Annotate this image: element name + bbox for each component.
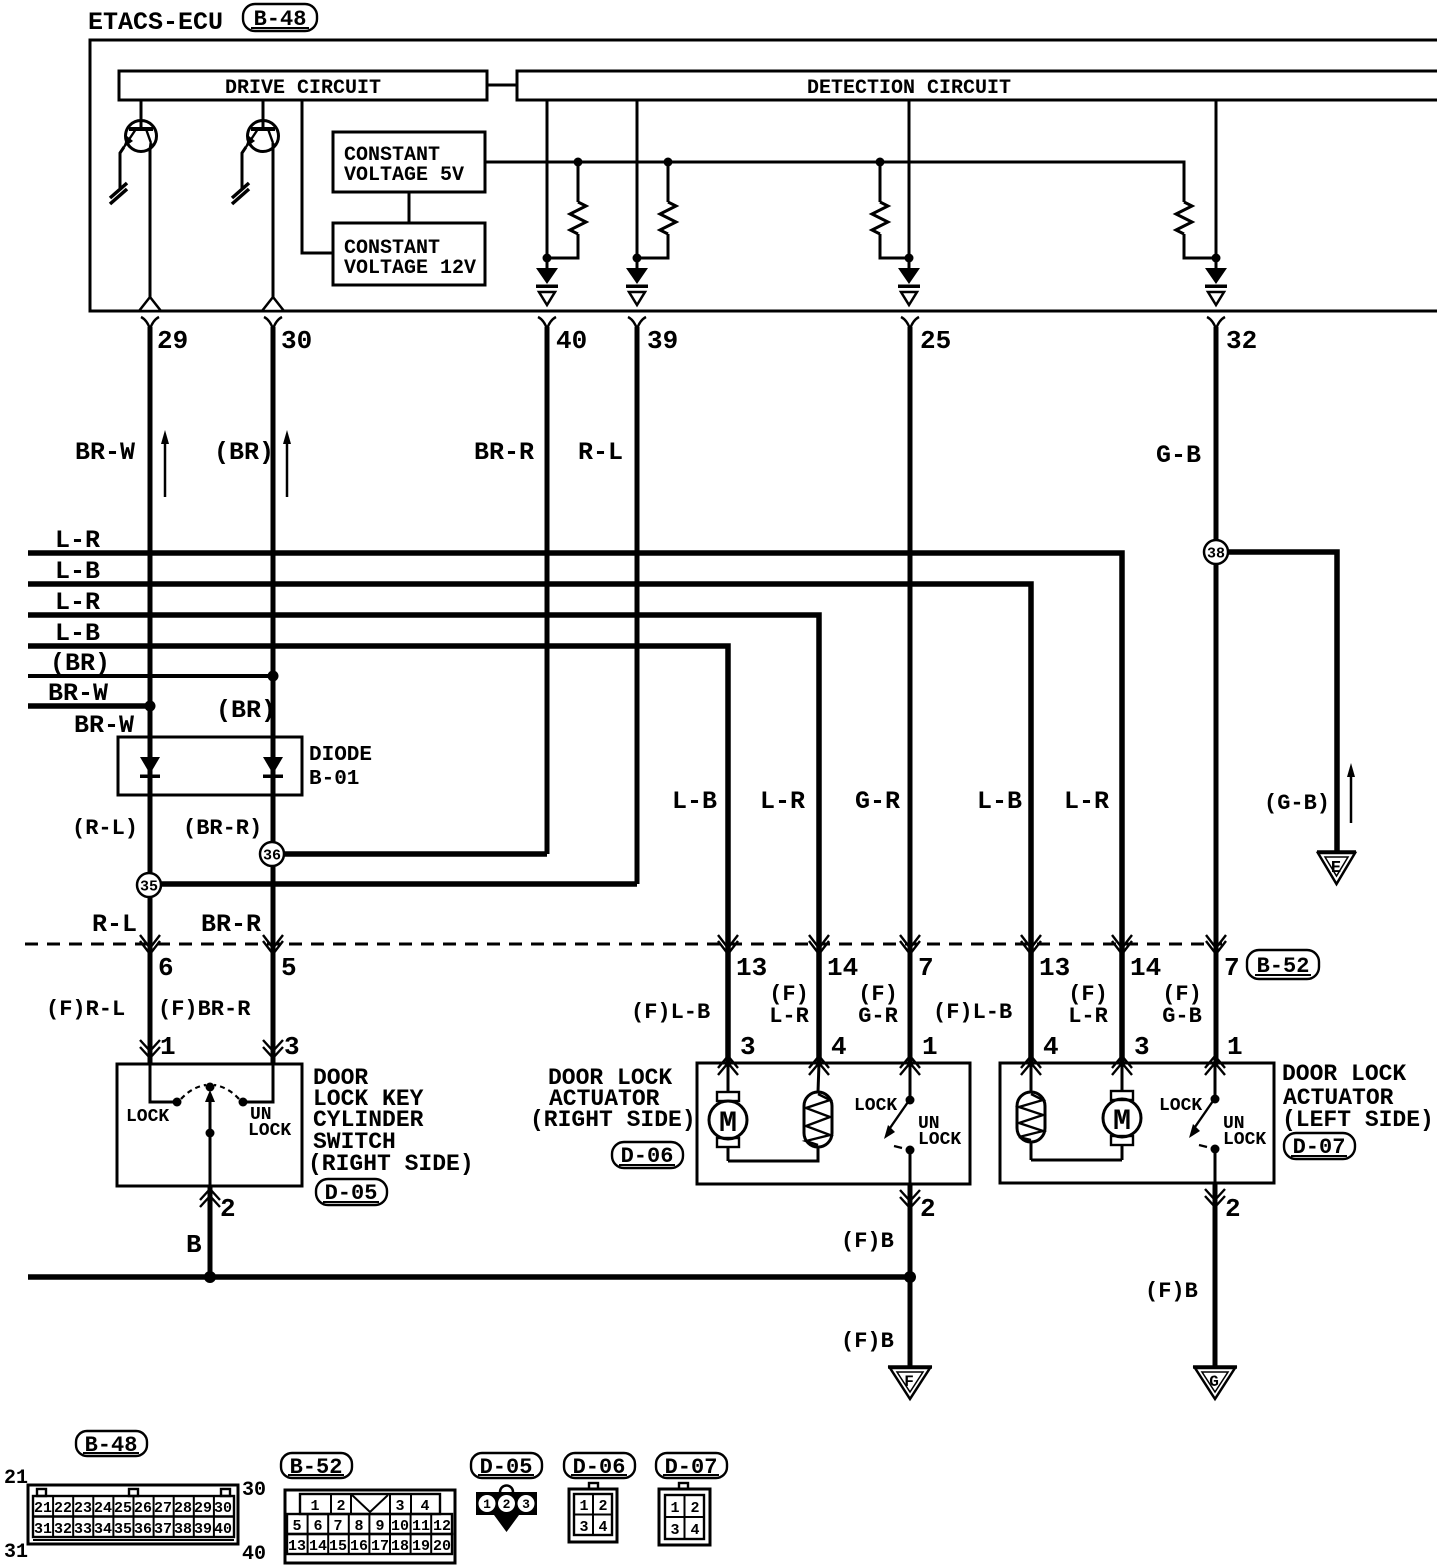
pin 30 connector — [264, 317, 312, 356]
svg-text:21: 21 — [34, 1500, 52, 1517]
svg-text:(F)B: (F)B — [841, 1229, 894, 1254]
svg-text:38: 38 — [1207, 546, 1225, 563]
svg-text:27: 27 — [154, 1500, 172, 1517]
svg-text:VOLTAGE 5V: VOLTAGE 5V — [344, 164, 464, 187]
svg-text:G-R: G-R — [858, 1004, 898, 1029]
node rail junction 2 — [664, 158, 673, 167]
wire pin30 vertical (BR) — [271, 327, 276, 1064]
svg-text:32: 32 — [54, 1521, 72, 1538]
svg-text:40: 40 — [556, 326, 587, 356]
wire Q2 collector to pin 30 — [272, 143, 275, 298]
wire bus1 L-R — [28, 553, 1122, 1063]
label UN LOCK (key switch) — [248, 1105, 291, 1141]
door lock actuator left box D-07 — [1000, 1063, 1274, 1183]
resistor R2 (pin39 pullup) — [637, 162, 676, 258]
ECU box B-48 outline — [90, 40, 1437, 311]
svg-text:L-B: L-B — [977, 787, 1022, 816]
wire right actuator pin2 to ground F — [908, 1184, 913, 1367]
constant voltage 5V box — [333, 132, 485, 192]
resistor R1 (pin40 pullup) — [547, 162, 586, 258]
pin 30 output triangle — [262, 297, 284, 311]
wire splice 36 branch — [273, 851, 547, 857]
svg-text:B-52: B-52 — [290, 1455, 343, 1480]
svg-text:DIODE: DIODE — [309, 744, 372, 767]
svg-text:3: 3 — [1134, 1032, 1150, 1062]
svg-text:LOCK: LOCK — [1223, 1130, 1266, 1150]
Q1 emitter slash symbol — [110, 183, 127, 204]
svg-text:33: 33 — [74, 1521, 92, 1538]
svg-text:M: M — [719, 1107, 737, 1141]
wire drive circuit to 12V box — [302, 100, 333, 253]
svg-text:L-R: L-R — [1064, 787, 1109, 816]
diode D39 — [626, 268, 648, 305]
svg-text:3: 3 — [284, 1032, 300, 1062]
svg-text:10: 10 — [391, 1518, 409, 1535]
svg-text:(BR): (BR) — [50, 649, 110, 678]
connector B-48 face — [28, 1485, 238, 1544]
svg-text:(F)B: (F)B — [841, 1329, 894, 1354]
node splice 38 — [1204, 540, 1228, 564]
wire key switch pin2 to ground bus — [208, 1186, 213, 1277]
connector D-05 face — [476, 1486, 537, 1533]
wire pin40 vertical BR-R — [545, 327, 550, 854]
label UN LOCK (right actuator) — [918, 1114, 961, 1150]
svg-text:LOCK: LOCK — [854, 1096, 897, 1116]
label (F) L-R right — [769, 982, 809, 1029]
wire drive-detection link — [487, 84, 517, 87]
svg-text:16: 16 — [350, 1538, 368, 1555]
svg-text:25: 25 — [920, 326, 951, 356]
svg-text:9: 9 — [375, 1518, 384, 1535]
wire splice 35 branch — [150, 881, 637, 887]
right actuator switch — [884, 1063, 915, 1184]
wire ground bus B — [28, 1274, 910, 1280]
svg-text:LOCK: LOCK — [1159, 1096, 1202, 1116]
chevron pin6 at B-52 — [140, 935, 160, 954]
left actuator entry arrow pin1 — [1205, 1032, 1243, 1075]
wire bus2 L-B — [28, 584, 1031, 1063]
svg-text:8: 8 — [354, 1518, 363, 1535]
wire Q2 emitter — [242, 147, 246, 188]
svg-text:(F)R-L: (F)R-L — [46, 997, 125, 1022]
svg-text:25: 25 — [114, 1500, 132, 1517]
chevron pin13L at B-52 — [1021, 935, 1041, 954]
svg-text:4: 4 — [598, 1519, 607, 1536]
wire right actuator motor-coil link — [728, 1147, 818, 1161]
Q2 emitter slash symbol — [232, 183, 249, 204]
svg-text:35: 35 — [140, 879, 158, 896]
wire detection to pin 40 — [546, 101, 549, 268]
wire left actuator coil-motor link — [1031, 1159, 1122, 1162]
pin 29 output triangle — [139, 297, 161, 311]
right actuator entry arrow pin3 — [718, 1032, 756, 1075]
transistor Q2 — [245, 100, 279, 152]
wire detection to pin 39 — [636, 101, 639, 268]
chevron pin5 at B-52 — [263, 935, 283, 954]
chevron pin14L at B-52 — [1112, 935, 1132, 954]
svg-text:(RIGHT SIDE): (RIGHT SIDE) — [308, 1151, 474, 1177]
wire 5V to 12V box — [408, 192, 411, 223]
pin 29 connector — [141, 317, 188, 356]
wire pin29 vertical BR-W — [148, 327, 153, 1064]
svg-text:23: 23 — [74, 1500, 92, 1517]
svg-text:LOCK: LOCK — [248, 1121, 291, 1141]
svg-text:31: 31 — [4, 1541, 28, 1564]
svg-text:1: 1 — [160, 1032, 176, 1062]
svg-text:24: 24 — [94, 1500, 112, 1517]
svg-text:40: 40 — [242, 1543, 266, 1566]
node rail junction 1 — [574, 158, 583, 167]
connector label B-52 (inline) — [1247, 950, 1319, 979]
node R4 tap — [1212, 254, 1221, 263]
transistor Q1 — [123, 100, 157, 152]
wire pin39 vertical R-L — [635, 327, 640, 884]
svg-text:11: 11 — [412, 1518, 430, 1535]
connector label B-52 (legend) — [281, 1453, 352, 1480]
diode D32 — [1205, 268, 1227, 305]
key switch LOCK contact — [173, 1098, 182, 1107]
key switch dashed arc left — [181, 1085, 206, 1099]
svg-text:L-R: L-R — [760, 787, 805, 816]
svg-text:29: 29 — [194, 1500, 212, 1517]
svg-text:17: 17 — [371, 1538, 389, 1555]
chevron pin14R at B-52 — [809, 935, 829, 954]
key switch dashed arc right — [214, 1085, 239, 1099]
svg-text:26: 26 — [134, 1500, 152, 1517]
detection circuit box — [517, 71, 1437, 100]
svg-text:B: B — [186, 1230, 202, 1260]
svg-text:14: 14 — [1130, 953, 1161, 983]
connector label D-07 — [1284, 1133, 1355, 1160]
node splice 36 — [260, 842, 284, 866]
connector label D-06 — [612, 1142, 683, 1169]
svg-text:G-B: G-B — [1162, 1004, 1202, 1029]
svg-text:36: 36 — [134, 1521, 152, 1538]
svg-text:L-R: L-R — [769, 1004, 809, 1029]
svg-text:(LEFT SIDE): (LEFT SIDE) — [1282, 1107, 1434, 1133]
svg-text:(F)BR-R: (F)BR-R — [158, 997, 251, 1022]
svg-text:DRIVE CIRCUIT: DRIVE CIRCUIT — [225, 77, 381, 100]
left actuator motor M — [1103, 1063, 1141, 1160]
pin 39 connector — [628, 317, 678, 356]
node bus at key switch — [204, 1271, 216, 1283]
svg-text:D-07: D-07 — [665, 1455, 718, 1480]
svg-text:ETACS-ECU: ETACS-ECU — [88, 8, 223, 37]
svg-text:(F)L-B: (F)L-B — [631, 1000, 710, 1025]
svg-text:1: 1 — [1227, 1032, 1243, 1062]
svg-text:32: 32 — [1226, 326, 1257, 356]
svg-text:13: 13 — [1039, 953, 1070, 983]
svg-text:28: 28 — [174, 1500, 192, 1517]
svg-text:4: 4 — [831, 1032, 847, 1062]
label (F) L-R left — [1068, 982, 1108, 1029]
svg-text:5: 5 — [292, 1518, 301, 1535]
left actuator label text — [1282, 1061, 1434, 1133]
svg-text:2: 2 — [336, 1498, 345, 1515]
pin 40 connector — [538, 317, 587, 356]
node R3 tap — [905, 254, 914, 263]
arrow up beside pin29 wire — [161, 430, 169, 497]
node R2 tap — [633, 254, 642, 263]
svg-text:5: 5 — [281, 953, 297, 983]
svg-text:B-01: B-01 — [309, 768, 359, 791]
left actuator pin2 exit arrow — [1205, 1189, 1241, 1224]
connector label D-07 (legend) — [656, 1453, 727, 1480]
ground E — [1317, 852, 1356, 884]
svg-text:2: 2 — [220, 1194, 236, 1224]
svg-text:DETECTION CIRCUIT: DETECTION CIRCUIT — [807, 77, 1011, 100]
key switch blade wire — [205, 1090, 215, 1186]
node bus6 junction on pin29 wire — [145, 701, 156, 712]
connector D-06 face — [569, 1483, 617, 1542]
connector label B-48 (legend) — [76, 1431, 147, 1458]
dashed firewall line B-52 — [25, 943, 1222, 946]
svg-text:14: 14 — [827, 953, 858, 983]
wire bus5 (BR) — [28, 674, 273, 678]
svg-text:1: 1 — [670, 1500, 679, 1517]
pin 32 connector — [1207, 317, 1257, 356]
chevron pin13R at B-52 — [718, 935, 738, 954]
wire Q1 emitter — [120, 147, 124, 188]
ground G — [1193, 1367, 1237, 1399]
wire bus3 L-R — [28, 615, 819, 1063]
node bus at actuator wire — [904, 1271, 916, 1283]
svg-text:L-R: L-R — [1068, 1004, 1108, 1029]
connector label D-06 (legend) — [564, 1453, 635, 1480]
right actuator label text — [530, 1065, 696, 1133]
svg-text:30: 30 — [281, 326, 312, 356]
svg-text:(R-L): (R-L) — [72, 816, 138, 841]
svg-text:3: 3 — [579, 1519, 588, 1536]
svg-text:1: 1 — [310, 1498, 319, 1515]
connector label D-05 (legend) — [471, 1453, 542, 1480]
svg-text:1: 1 — [483, 1497, 491, 1512]
left actuator entry arrow pin4 — [1021, 1032, 1059, 1075]
diode D40 — [536, 268, 558, 305]
pin 25 connector — [901, 317, 951, 356]
diode box B-01 — [118, 737, 372, 795]
wire detection to pin 32 — [1215, 101, 1218, 268]
svg-text:39: 39 — [194, 1521, 212, 1538]
door lock actuator right box D-06 — [697, 1063, 970, 1184]
svg-text:(G-B): (G-B) — [1264, 791, 1330, 816]
svg-text:2: 2 — [920, 1194, 936, 1224]
svg-text:7: 7 — [918, 953, 934, 983]
key switch entry arrow pin3 — [263, 1032, 300, 1062]
svg-text:1: 1 — [579, 1498, 588, 1515]
wire bus6 BR-W — [28, 703, 150, 709]
svg-text:G-B: G-B — [1156, 441, 1201, 470]
svg-text:VOLTAGE 12V: VOLTAGE 12V — [344, 257, 476, 280]
svg-text:38: 38 — [174, 1521, 192, 1538]
svg-text:L-B: L-B — [672, 787, 717, 816]
wire pin32 vertical G-B — [1214, 327, 1219, 1063]
node splice 35 — [137, 873, 161, 897]
svg-text:G: G — [1209, 1373, 1219, 1391]
svg-text:DOOR LOCK: DOOR LOCK — [1282, 1061, 1406, 1087]
left actuator entry arrow pin3 — [1112, 1032, 1150, 1075]
door lock key cylinder switch box D-05 — [117, 1064, 302, 1186]
wire detection to pin 25 — [908, 101, 911, 268]
key switch common pole dot — [206, 1083, 215, 1092]
svg-text:36: 36 — [263, 848, 281, 865]
svg-text:4: 4 — [690, 1522, 699, 1539]
svg-text:35: 35 — [114, 1521, 132, 1538]
svg-text:31: 31 — [34, 1521, 52, 1538]
key switch entry arrow pin1 — [140, 1032, 176, 1062]
chevron pin7R at B-52 — [900, 935, 920, 954]
svg-text:E: E — [1331, 859, 1341, 878]
node rail junction 3 — [876, 158, 885, 167]
svg-text:40: 40 — [214, 1521, 232, 1538]
arrow up beside pin30 wire — [283, 430, 291, 497]
chevron pin7L at B-52 — [1206, 935, 1226, 954]
svg-text:30: 30 — [242, 1479, 266, 1502]
svg-text:B-48: B-48 — [85, 1433, 138, 1458]
connector B-52 face — [285, 1490, 455, 1563]
right actuator entry arrow pin1 — [900, 1032, 938, 1075]
svg-text:R-L: R-L — [578, 438, 623, 467]
wire pin25 vertical G-R — [908, 327, 913, 1063]
svg-text:6: 6 — [158, 953, 174, 983]
svg-text:15: 15 — [329, 1538, 347, 1555]
wire left actuator pin2 to ground G — [1213, 1183, 1218, 1367]
wire Q1 collector to pin 29 — [150, 143, 151, 298]
svg-text:BR-R: BR-R — [201, 910, 261, 939]
connector label D-05 — [316, 1179, 387, 1206]
svg-text:3: 3 — [740, 1032, 756, 1062]
svg-text:7: 7 — [1224, 953, 1240, 983]
node R1 tap — [543, 254, 552, 263]
svg-text:30: 30 — [214, 1500, 232, 1517]
resistor R4 (pin32 pullup) — [1176, 202, 1216, 258]
diode B-01 left element — [140, 757, 160, 778]
svg-text:D-05: D-05 — [480, 1455, 533, 1480]
svg-text:34: 34 — [94, 1521, 112, 1538]
svg-text:2: 2 — [690, 1500, 699, 1517]
right actuator entry arrow pin4 — [809, 1032, 847, 1075]
right actuator motor M — [709, 1063, 747, 1161]
arrow up beside ground E wire — [1347, 763, 1355, 823]
svg-text:21: 21 — [4, 1467, 28, 1490]
svg-text:18: 18 — [391, 1538, 409, 1555]
svg-text:(BR-R): (BR-R) — [183, 816, 262, 841]
svg-text:M: M — [1113, 1105, 1131, 1139]
svg-text:39: 39 — [647, 326, 678, 356]
left actuator solenoid coil — [1017, 1063, 1045, 1160]
svg-text:3: 3 — [522, 1497, 530, 1512]
ground F — [888, 1367, 932, 1399]
svg-text:13: 13 — [288, 1538, 306, 1555]
svg-text:20: 20 — [433, 1538, 451, 1555]
label UN LOCK (left actuator) — [1223, 1114, 1266, 1150]
wire 5V rail — [485, 162, 1184, 202]
svg-text:(BR): (BR) — [216, 696, 276, 725]
svg-text:G-R: G-R — [855, 787, 900, 816]
svg-text:12: 12 — [433, 1518, 451, 1535]
svg-text:2: 2 — [503, 1497, 511, 1512]
right actuator pin2 exit arrow — [900, 1190, 936, 1224]
connector label B-48 (top) — [243, 4, 317, 32]
svg-text:LOCK: LOCK — [126, 1107, 169, 1127]
svg-text:22: 22 — [54, 1500, 72, 1517]
svg-text:R-L: R-L — [92, 910, 137, 939]
svg-text:6: 6 — [313, 1518, 322, 1535]
svg-text:1: 1 — [922, 1032, 938, 1062]
drive circuit box — [119, 71, 487, 100]
right actuator solenoid coil — [804, 1063, 832, 1147]
svg-text:4: 4 — [1043, 1032, 1059, 1062]
svg-text:BR-W: BR-W — [75, 438, 135, 467]
svg-text:(F)B: (F)B — [1145, 1279, 1198, 1304]
svg-text:4: 4 — [420, 1498, 429, 1515]
svg-text:7: 7 — [333, 1518, 342, 1535]
svg-text:LOCK: LOCK — [918, 1130, 961, 1150]
diode D25 — [898, 268, 920, 305]
svg-text:(BR): (BR) — [214, 438, 274, 467]
key switch pin3 internal wire — [246, 1064, 273, 1102]
resistor R3 (pin25 pullup) — [872, 162, 909, 258]
svg-text:2: 2 — [1225, 1194, 1241, 1224]
svg-text:3: 3 — [395, 1498, 404, 1515]
svg-text:14: 14 — [309, 1538, 327, 1555]
left actuator switch — [1189, 1063, 1220, 1183]
connector D-07 face — [659, 1483, 710, 1545]
wire pin32 G-B branch to ground E — [1216, 552, 1337, 852]
svg-text:19: 19 — [412, 1538, 430, 1555]
svg-text:(F)L-B: (F)L-B — [933, 1000, 1012, 1025]
svg-text:13: 13 — [736, 953, 767, 983]
svg-text:BR-R: BR-R — [474, 438, 534, 467]
svg-text:F: F — [904, 1373, 914, 1391]
svg-text:D-06: D-06 — [573, 1455, 626, 1480]
key switch UNLOCK contact — [239, 1098, 248, 1107]
node bus5 junction on pin30 wire — [268, 671, 279, 682]
svg-text:(RIGHT SIDE): (RIGHT SIDE) — [530, 1107, 696, 1133]
label (F) G-R right — [858, 982, 898, 1029]
key switch pin2 exit arrow — [200, 1189, 236, 1224]
svg-text:37: 37 — [154, 1521, 172, 1538]
wire bus4 L-B — [28, 646, 728, 1063]
diode B-01 right element — [263, 757, 283, 778]
key switch pin1 internal wire — [150, 1064, 174, 1102]
svg-text:2: 2 — [598, 1498, 607, 1515]
key switch label text — [308, 1065, 474, 1177]
node key switch blade junction — [206, 1129, 215, 1138]
svg-text:3: 3 — [670, 1522, 679, 1539]
label (F) G-B left — [1162, 982, 1202, 1029]
svg-text:29: 29 — [157, 326, 188, 356]
constant voltage 12V box — [333, 223, 485, 285]
